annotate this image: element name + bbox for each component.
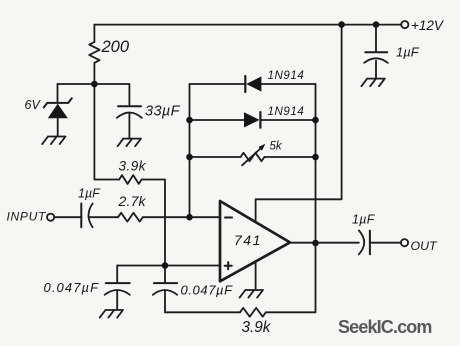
- wire + input node horizontal: [117, 265, 220, 267]
- wire left 0.047uF bottom lead: [116, 291, 118, 310]
- svg-text:33µF: 33µF: [145, 104, 181, 120]
- wire +12V bypass cap lead: [375, 25, 377, 52]
- node inverting input: [186, 214, 193, 221]
- capacitor C1 1uF input: [80, 204, 82, 228]
- wire series 0.047uF top lead: [164, 266, 166, 284]
- wire V+ supply route: [256, 25, 342, 222]
- wire output rail vertical: [315, 84, 317, 243]
- wire D2 left lead: [190, 119, 245, 121]
- capacitor C6 1uF bypass: [365, 51, 387, 53]
- wire 33uF bottom lead: [128, 113, 130, 139]
- svg-text:+12V: +12V: [411, 18, 445, 33]
- svg-text:0.047µF: 0.047µF: [44, 280, 100, 295]
- wire D1 right lead: [261, 83, 315, 85]
- svg-text:2.7k: 2.7k: [118, 193, 147, 209]
- wire left rail down from top: [93, 25, 95, 42]
- wire input cap to 2.7k: [89, 216, 118, 218]
- node top rail to V+: [338, 21, 345, 28]
- svg-text:200: 200: [101, 38, 130, 56]
- ground left 0.047uF: [100, 310, 123, 318]
- capacitor C4 0.047uF left: [106, 282, 130, 284]
- svg-text:3.9k: 3.9k: [119, 159, 147, 174]
- wire 3.9k right lead to + node: [142, 180, 165, 266]
- capacitor C2 33uF: [118, 105, 141, 107]
- wire 2.7k to op-amp: [143, 216, 220, 218]
- resistor R1 3.9k top: [119, 175, 141, 184]
- wire bypass cap bottom lead: [375, 61, 377, 79]
- svg-text:0.047µF: 0.047µF: [181, 283, 234, 298]
- terminal INPUT: [47, 214, 54, 221]
- node 5k right: [312, 154, 319, 161]
- wire left 0.047uF top lead: [116, 266, 118, 284]
- capacitor C5 0.047uF series: [154, 282, 177, 284]
- node D2 right: [312, 117, 319, 124]
- wire V- pin to ground: [255, 262, 257, 290]
- diode D2 1N914: [244, 112, 260, 127]
- capacitor C3 1uF output: [359, 230, 364, 254]
- node non-inverting: [162, 262, 169, 269]
- resistor R4 3.9k bottom: [240, 308, 266, 317]
- terminal OUT: [401, 239, 408, 246]
- svg-text:5k: 5k: [270, 141, 283, 153]
- wire 6V node horizontal: [58, 83, 130, 85]
- wire series 0.047uF bottom lead: [164, 291, 166, 313]
- wire bottom feedback right: [266, 243, 316, 312]
- svg-text:741: 741: [234, 232, 262, 248]
- svg-text:1µF: 1µF: [396, 45, 420, 60]
- node 5k left: [186, 154, 193, 161]
- svg-text:SeekIC.com: SeekIC.com: [338, 317, 432, 337]
- terminal +12V: [401, 21, 408, 28]
- op-amp U1 741: [220, 201, 290, 281]
- wire left rail to 3.9k corner: [93, 64, 95, 180]
- svg-text:1N914: 1N914: [268, 106, 305, 118]
- pin plus mark: [225, 262, 232, 269]
- wire to OUT terminal: [370, 242, 401, 244]
- resistor R2 2.7k: [118, 213, 143, 222]
- diode D1 1N914: [244, 76, 246, 92]
- wire bottom feedback left: [165, 311, 240, 313]
- potentiometer R5 5k: [241, 153, 265, 161]
- node D2 left: [186, 117, 193, 124]
- svg-text:1µF: 1µF: [78, 187, 101, 201]
- wire 33uF top lead: [128, 84, 130, 106]
- zener diode D3 6V: [44, 98, 72, 107]
- pin minus mark: [225, 217, 232, 219]
- node 6V reference: [91, 81, 98, 88]
- node top rail bypass: [373, 21, 380, 28]
- wire zener bottom lead: [57, 118, 59, 136]
- wire D2 right lead: [260, 119, 315, 121]
- wire op-amp output: [290, 242, 359, 244]
- svg-text:OUT: OUT: [411, 239, 438, 253]
- ground zener: [42, 137, 65, 145]
- ground 33uF: [118, 139, 141, 147]
- wire zener top lead: [57, 84, 59, 103]
- wire top +12V rail: [94, 24, 401, 26]
- wire 3.9k left lead: [94, 179, 119, 181]
- wire D1 left lead: [190, 83, 246, 85]
- wire inverting rail vertical: [189, 84, 191, 217]
- svg-text:1µF: 1µF: [352, 213, 376, 227]
- wire 5k left lead: [190, 156, 241, 158]
- ground bypass cap: [361, 79, 384, 87]
- svg-text:6V: 6V: [25, 98, 42, 112]
- wire 5k right lead: [264, 156, 315, 158]
- svg-text:1N914: 1N914: [268, 70, 305, 82]
- resistor R 200: [89, 42, 99, 64]
- ground op-amp: [240, 290, 263, 298]
- svg-text:INPUT: INPUT: [7, 210, 47, 224]
- svg-text:3.9k: 3.9k: [242, 319, 272, 336]
- wire input lead: [54, 216, 81, 218]
- node output: [312, 240, 319, 247]
